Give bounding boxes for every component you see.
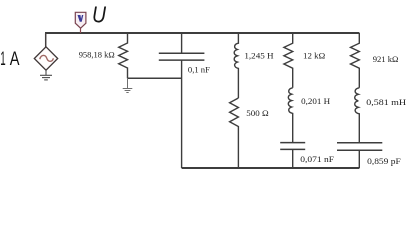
inductor L1 1,245 H <box>234 33 238 98</box>
svg-text:1,245 H: 1,245 H <box>244 51 274 61</box>
ground (under resistor) <box>123 78 133 92</box>
svg-text:500 Ω: 500 Ω <box>246 108 269 118</box>
resistor R 958,18 k <box>119 33 128 78</box>
svg-text:0,201 H: 0,201 H <box>301 96 331 106</box>
svg-text:921 kΩ: 921 kΩ <box>373 54 399 64</box>
capacitor 0,071 nF <box>280 143 305 168</box>
svg-text:0,1 nF: 0,1 nF <box>188 65 210 75</box>
svg-text:958,18 kΩ: 958,18 kΩ <box>79 50 115 60</box>
current source I1 (1 A) <box>34 47 57 70</box>
svg-text:12 kΩ: 12 kΩ <box>303 50 326 60</box>
wire: source top lead <box>45 33 47 48</box>
svg-text:A: A <box>10 47 20 70</box>
wire R1 to C1 bottom junction <box>128 77 182 79</box>
svg-text:U: U <box>92 2 107 28</box>
svg-text:0,581 mH: 0,581 mH <box>366 97 407 107</box>
wire: bottom rail <box>182 167 360 169</box>
resistor 500 Ohm <box>230 98 239 168</box>
svg-text:0,071 nF: 0,071 nF <box>300 154 334 164</box>
voltage probe (V) <box>75 12 86 33</box>
resistor 921 kOhm <box>351 33 360 88</box>
wire: top rail <box>45 32 359 34</box>
resistor 12 kOhm <box>284 33 293 88</box>
capacitor 0,859 pF <box>337 143 382 168</box>
capacitor C1 0,1 nF <box>159 33 205 168</box>
inductor 0,581 mH <box>355 88 360 143</box>
ground (source) <box>40 70 52 80</box>
inductor 0,201 H <box>288 88 292 143</box>
svg-text:0,859 pF: 0,859 pF <box>367 156 401 166</box>
svg-text:1: 1 <box>0 48 5 70</box>
